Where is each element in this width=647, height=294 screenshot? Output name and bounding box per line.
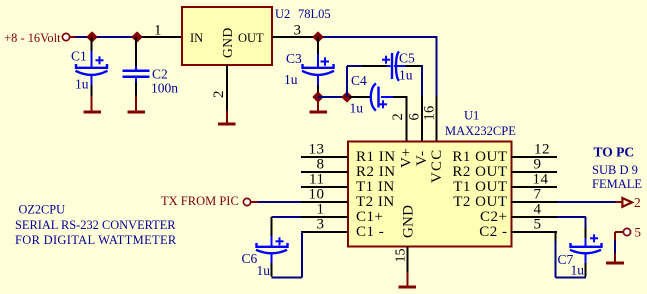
ground C2: [128, 96, 146, 114]
svg-text:SERIAL RS-232 CONVERTER: SERIAL RS-232 CONVERTER: [15, 218, 176, 232]
svg-text:1u: 1u: [350, 101, 364, 116]
capacitor C2: [123, 37, 150, 98]
svg-text:10: 10: [309, 187, 325, 203]
ground U1: [399, 272, 417, 289]
svg-text:T2 IN: T2 IN: [356, 194, 395, 210]
U1 pin 16: [436, 96, 438, 142]
svg-text:R1 OUT: R1 OUT: [452, 149, 507, 165]
svg-text:TO PC: TO PC: [594, 145, 635, 160]
U1 pin 9: [511, 171, 557, 173]
svg-text:T1 OUT: T1 OUT: [453, 179, 507, 195]
svg-text:OZ2CPU: OZ2CPU: [19, 203, 66, 217]
svg-text:U2: U2: [275, 7, 290, 21]
svg-text:3: 3: [294, 23, 302, 39]
wire V- vertical: [421, 66, 423, 96]
svg-text:14: 14: [533, 172, 549, 188]
wire: [70, 36, 76, 38]
U1 pin 10: [301, 201, 348, 203]
svg-text:C2 -: C2 -: [479, 224, 507, 240]
wire C4 pin: [362, 96, 370, 98]
svg-text:R2 OUT: R2 OUT: [452, 164, 507, 180]
svg-text:R2 IN: R2 IN: [356, 164, 396, 180]
svg-text:V-: V-: [414, 151, 430, 166]
U1 pin 5: [511, 231, 557, 233]
U2 pin 2: [226, 65, 228, 110]
capacitor C1: [76, 37, 108, 98]
wire gnd rail: [318, 96, 347, 98]
terminal TX: [243, 198, 250, 205]
U1 pin 12: [511, 156, 557, 158]
svg-text:FOR DIGITAL WATTMETER: FOR DIGITAL WATTMETER: [15, 233, 177, 247]
wire C2- down: [555, 241, 557, 278]
svg-text:1u: 1u: [75, 76, 89, 91]
terminal 5: [623, 228, 630, 235]
svg-text:C2: C2: [152, 67, 168, 82]
svg-text:6: 6: [407, 113, 423, 120]
U1 pin 13: [301, 156, 348, 158]
svg-text:FEMALE: FEMALE: [592, 177, 642, 191]
wire to C4: [349, 96, 362, 98]
svg-text:1u: 1u: [399, 68, 413, 83]
wire C5 pin: [362, 65, 387, 67]
wire C2+ right: [557, 216, 586, 218]
ground C3: [310, 97, 328, 114]
svg-text:12: 12: [534, 142, 550, 158]
junction: [132, 32, 141, 41]
svg-text:V+: V+: [399, 148, 415, 168]
svg-text:7: 7: [534, 187, 542, 203]
svg-text:OUT: OUT: [238, 31, 264, 45]
capacitor C4: [371, 84, 393, 111]
svg-text:C4: C4: [351, 73, 367, 88]
svg-text:2: 2: [390, 113, 406, 120]
svg-text:C1 -: C1 -: [356, 224, 384, 240]
U1 pin 3: [301, 231, 348, 233]
wire C1+ to C6: [272, 216, 302, 218]
U2 pin 3: [272, 36, 318, 38]
arrow to pin 2: [622, 198, 632, 207]
U1 pin 1: [301, 216, 348, 218]
wire up to C1-: [301, 232, 303, 278]
svg-text:13: 13: [309, 142, 325, 158]
wire: [251, 201, 259, 203]
terminal input port: [62, 33, 69, 40]
capacitor C6: [256, 217, 288, 277]
wire VCC rail: [318, 36, 437, 38]
U1 pin 15 GND: [407, 247, 409, 273]
svg-text:5: 5: [534, 217, 542, 233]
junction: [87, 32, 96, 41]
svg-text:+8 - 16Volt: +8 - 16Volt: [4, 31, 61, 45]
svg-text:TX FROM PIC: TX FROM PIC: [161, 194, 239, 208]
U1 pin 8: [301, 171, 348, 173]
U1 pin 7: [511, 201, 557, 203]
wire arrow stub: [616, 201, 623, 203]
svg-text:SUB D 9: SUB D 9: [592, 163, 638, 177]
svg-text:C2+: C2+: [480, 209, 507, 225]
svg-text:11: 11: [309, 172, 324, 188]
svg-text:U1: U1: [464, 109, 479, 123]
svg-text:2: 2: [211, 91, 227, 99]
svg-text:C1: C1: [71, 49, 87, 64]
svg-text:15: 15: [394, 249, 409, 263]
svg-text:1u: 1u: [257, 263, 271, 278]
wire: [76, 36, 90, 38]
U1 pin 6 V-: [421, 96, 423, 142]
wire C6 bottom: [272, 277, 303, 279]
svg-text:3: 3: [317, 217, 325, 233]
wire: [258, 201, 301, 203]
wire VCC down: [436, 36, 438, 96]
wire C2+ down: [585, 217, 587, 228]
ground C1: [84, 96, 102, 114]
svg-text:C5: C5: [399, 51, 415, 66]
svg-text:5: 5: [635, 225, 642, 240]
svg-text:8: 8: [317, 157, 325, 173]
wire T2OUT to PC: [557, 201, 616, 203]
svg-text:R1 IN: R1 IN: [356, 149, 396, 165]
svg-text:GND: GND: [220, 27, 235, 58]
wire C5 branch horizontal: [347, 65, 362, 67]
wire: [89, 36, 137, 38]
wire pin1 U2: [137, 36, 182, 38]
svg-text:C1+: C1+: [356, 209, 383, 225]
junction: [342, 92, 351, 101]
svg-text:C3: C3: [286, 51, 302, 66]
voltage regulator U2 box: [182, 7, 272, 65]
wire C2- stub down: [555, 232, 557, 241]
wire terminal 5: [615, 231, 624, 233]
junction: [313, 92, 322, 101]
wire C5 branch vertical: [346, 66, 348, 97]
capacitor C3: [302, 37, 334, 93]
wire: [614, 241, 616, 254]
U1 right pin names: [452, 149, 507, 240]
svg-text:GND: GND: [401, 205, 417, 238]
svg-text:2: 2: [634, 195, 641, 210]
svg-text:1u: 1u: [571, 263, 585, 278]
op-amp U1 MAX232CPE box: [348, 142, 512, 247]
svg-text:C6: C6: [242, 251, 258, 266]
svg-text:MAX232CPE: MAX232CPE: [445, 124, 516, 138]
wire: [614, 232, 616, 241]
svg-text:1: 1: [317, 202, 325, 218]
wire C7 bottom: [556, 277, 587, 279]
svg-text:16: 16: [422, 105, 438, 120]
svg-text:4: 4: [534, 202, 542, 218]
svg-text:78L05: 78L05: [298, 7, 331, 21]
svg-text:1: 1: [154, 23, 162, 39]
svg-text:1u: 1u: [284, 72, 298, 87]
svg-text:T1 IN: T1 IN: [356, 179, 395, 195]
ground U2: [218, 110, 236, 126]
capacitor C7: [570, 228, 602, 277]
wire C5 to V-: [406, 65, 424, 67]
U1 pin 4: [511, 216, 557, 218]
svg-text:T2 OUT: T2 OUT: [453, 194, 507, 210]
junction: [313, 32, 322, 41]
U1 left pin names: [356, 149, 396, 240]
wire C4 to V+: [393, 96, 408, 98]
svg-text:VCC: VCC: [429, 149, 445, 183]
svg-text:IN: IN: [190, 31, 203, 45]
ground terminal 5: [606, 253, 624, 265]
U1 pin 2 V+: [406, 97, 408, 142]
svg-text:9: 9: [534, 157, 542, 173]
svg-text:100n: 100n: [151, 81, 178, 96]
capacitor C5: [382, 52, 406, 81]
U1 pin 11: [301, 186, 348, 188]
U1 pin 14: [511, 186, 557, 188]
